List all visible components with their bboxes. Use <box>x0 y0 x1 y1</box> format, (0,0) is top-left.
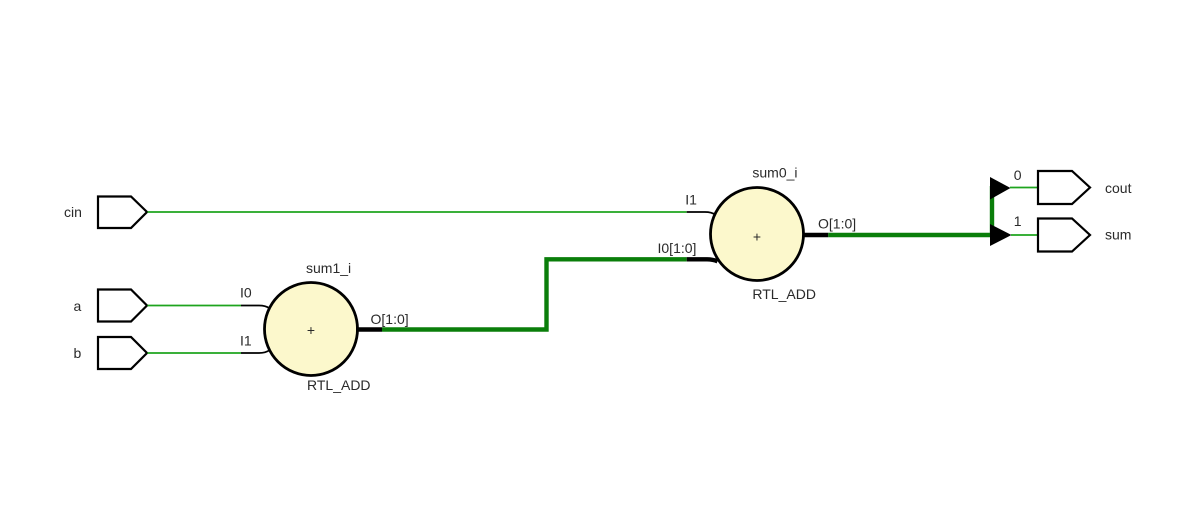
bus net sum1_i O to sum0_i I0 <box>382 259 687 329</box>
svg-text:+: + <box>307 322 315 338</box>
svg-text:O[1:0]: O[1:0] <box>371 311 409 327</box>
adder cell sum1_i <box>265 283 358 376</box>
svg-text:RTL_ADD: RTL_ADD <box>307 377 371 393</box>
wire net cout bit <box>1010 187 1038 189</box>
svg-text:1: 1 <box>1014 213 1022 229</box>
input port cin <box>98 197 147 229</box>
svg-text:I1: I1 <box>240 333 252 349</box>
svg-text:0: 0 <box>1014 167 1022 183</box>
pin stub O[1:0] of sum1_i <box>356 327 382 331</box>
svg-text:+: + <box>753 229 761 245</box>
input port b <box>98 337 147 369</box>
svg-text:cin: cin <box>64 204 82 220</box>
svg-text:I1: I1 <box>685 192 697 208</box>
bus ripper triangle bit 0 <box>990 177 1011 200</box>
pin stub I0[1:0] of sum0_i <box>687 259 718 261</box>
wire net sum bit <box>1011 234 1038 236</box>
svg-text:a: a <box>74 298 82 314</box>
svg-text:I0[1:0]: I0[1:0] <box>658 240 697 256</box>
output port sum <box>1038 219 1090 252</box>
svg-text:O[1:0]: O[1:0] <box>818 216 856 232</box>
wire net cin <box>148 211 687 213</box>
svg-text:sum: sum <box>1105 226 1131 242</box>
wire net a <box>148 305 242 307</box>
output port cout <box>1038 171 1090 204</box>
svg-text:sum0_i: sum0_i <box>752 165 797 181</box>
pin stub I0 of sum1_i <box>241 306 270 309</box>
svg-text:b: b <box>74 345 82 361</box>
svg-text:RTL_ADD: RTL_ADD <box>752 286 816 302</box>
input port a <box>98 290 147 322</box>
wire net b <box>148 352 242 354</box>
svg-text:sum1_i: sum1_i <box>306 260 351 276</box>
svg-text:cout: cout <box>1105 180 1132 196</box>
svg-text:I0: I0 <box>240 285 252 301</box>
bus net sum0_i O output <box>828 186 992 235</box>
pin stub O[1:0] of sum0_i <box>803 233 828 237</box>
pin stub I1 of sum1_i <box>241 350 270 353</box>
adder cell sum0_i <box>711 188 804 281</box>
pin stub I1 of sum0_i <box>687 212 716 215</box>
bus ripper triangle bit 1 <box>990 224 1012 246</box>
